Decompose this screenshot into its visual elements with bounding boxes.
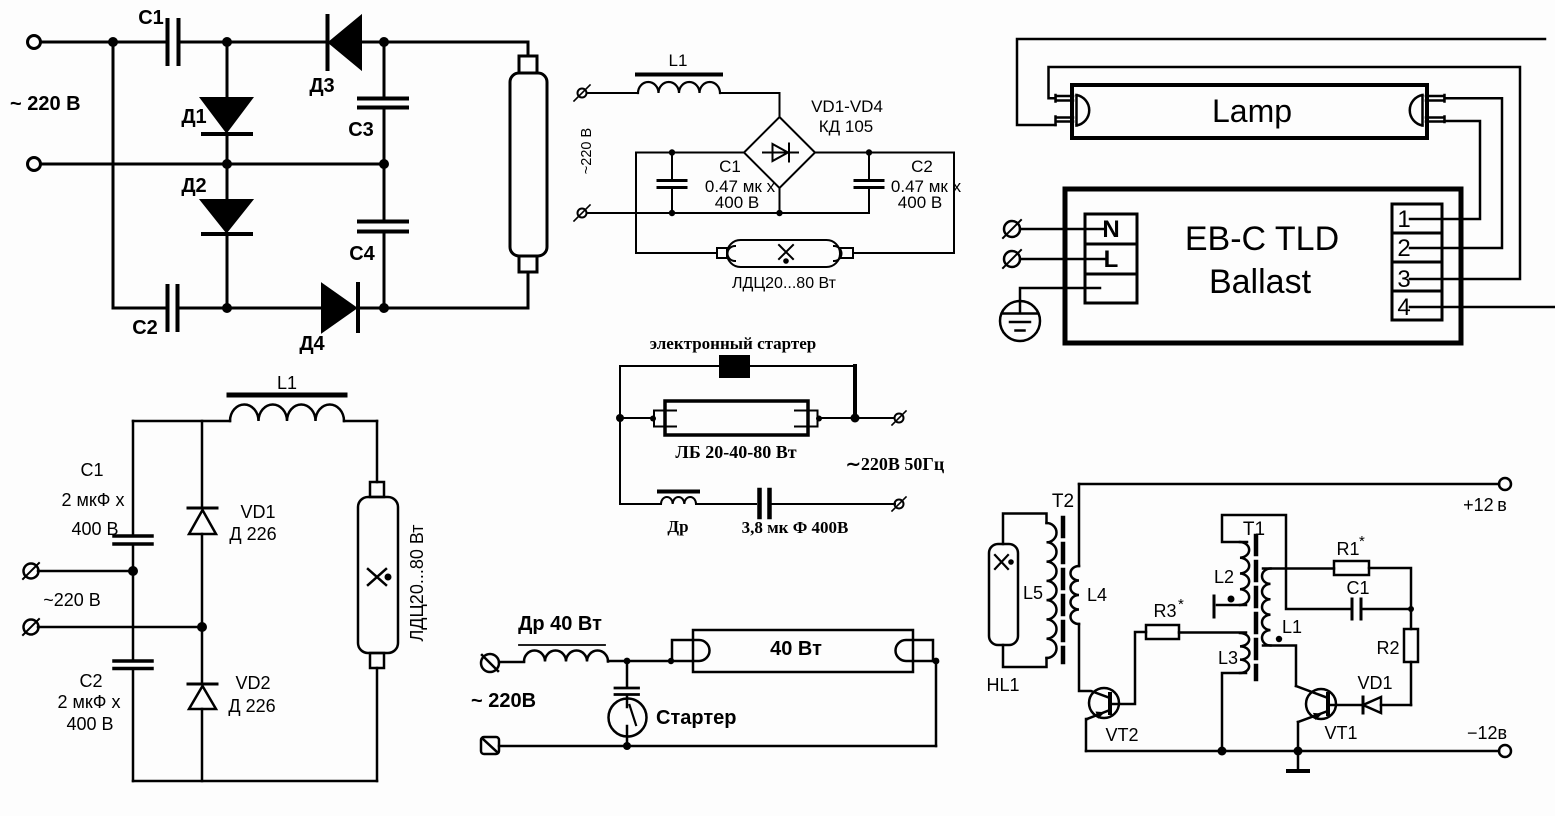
svg-text:C2: C2 [132, 317, 158, 339]
lamp ЛДЦ vertical [370, 482, 384, 497]
wire bottom rail [499, 745, 936, 748]
phase dot L1 [1276, 636, 1282, 642]
svg-text:VT1: VT1 [1324, 723, 1357, 743]
wire choke to lamp [608, 660, 672, 663]
lamp pin lower-right [1426, 117, 1445, 123]
wire top loop [620, 365, 855, 367]
svg-text:400 В: 400 В [71, 519, 118, 539]
node A [108, 37, 118, 47]
wire R2 leads [1410, 609, 1413, 705]
wire lamp branch top [376, 421, 379, 482]
node input 1 [128, 566, 138, 576]
wire lamp right to terminal [818, 417, 894, 419]
wire left down to lamp [636, 153, 717, 254]
winding L5 [1047, 523, 1057, 658]
svg-text:4: 4 [1397, 294, 1410, 321]
svg-text:R1: R1 [1336, 539, 1359, 559]
capacitor 3,8 мкФ [760, 490, 770, 517]
svg-text:VD2: VD2 [235, 673, 270, 693]
diode Д1 [201, 98, 252, 132]
svg-text:VD1: VD1 [1357, 673, 1392, 693]
lamp pin lower-left [1056, 117, 1074, 126]
capacitor C2 [168, 286, 178, 330]
inductor Др [661, 497, 696, 504]
terminal input 1 [28, 36, 41, 49]
core T2 [1061, 518, 1066, 662]
svg-text:Д3: Д3 [309, 75, 334, 97]
svg-text:T1: T1 [1243, 519, 1265, 540]
diode VD1 [1363, 697, 1381, 713]
wire lamp right down [933, 661, 936, 746]
svg-text:Др 40 Вт: Др 40 Вт [518, 613, 602, 635]
lamp pin right [795, 411, 818, 427]
svg-text:ЛДЦ20...80 Вт: ЛДЦ20...80 Вт [732, 275, 837, 292]
wire R2 to VD1 [1381, 704, 1411, 707]
wire bottom rail [588, 212, 869, 214]
node lamp right [933, 658, 940, 665]
wire right rail [815, 152, 954, 154]
node bottom mid [776, 210, 782, 216]
core T1 [1254, 536, 1259, 679]
phase dot L2 [1228, 596, 1235, 603]
electrode left [672, 640, 710, 661]
winding L3 [1240, 633, 1249, 673]
wire node E to C4 [383, 164, 386, 220]
svg-text:1: 1 [1397, 206, 1410, 233]
capacitor C1 [658, 181, 686, 188]
svg-text:~ 220 В: ~ 220 В [10, 93, 81, 115]
svg-text:N: N [1102, 216, 1119, 243]
svg-text:VT2: VT2 [1105, 725, 1138, 745]
wire to choke [499, 661, 524, 664]
node C1/R1/R2 [1408, 606, 1414, 612]
ballast box [1065, 189, 1461, 343]
node bottom [623, 742, 631, 750]
terminal input 2 [24, 620, 39, 635]
lamp ЛДЦ [727, 240, 840, 267]
wire lamp lower-left to top loop [1017, 39, 1545, 125]
lamp pin upper-left [1056, 95, 1074, 102]
svg-text:C4: C4 [349, 243, 375, 265]
svg-text:HL1: HL1 [986, 675, 1019, 695]
svg-text:ЛДЦ20...80 Вт: ЛДЦ20...80 Вт [407, 524, 427, 641]
node L3 bottom [1218, 747, 1227, 756]
wire L1 top to R1 [1263, 567, 1334, 570]
svg-text:L: L [1104, 246, 1119, 273]
wire C1 to bottom rail [671, 189, 673, 213]
svg-text:~220 В: ~220 В [579, 128, 595, 174]
capacitor C3 [359, 99, 407, 108]
wire to earth cell [1020, 288, 1100, 301]
terminal input 1 [24, 564, 39, 579]
svg-text:C3: C3 [348, 119, 374, 141]
resistor R3 [1146, 625, 1179, 639]
wire left vertical [619, 366, 621, 504]
svg-text:400 В: 400 В [715, 193, 759, 212]
wire input 2 [38, 626, 202, 629]
wire to bridge top [720, 93, 780, 117]
lamp tube [519, 56, 537, 73]
wire mid rail [41, 163, 384, 166]
svg-text:C2: C2 [79, 671, 102, 691]
wire left rail upper [132, 421, 135, 534]
svg-text:−12в: −12в [1467, 723, 1507, 743]
wire bottom rail [133, 780, 377, 783]
wire VT2 emitter to bottom rail [1086, 719, 1087, 751]
wire to L [1020, 258, 1105, 261]
wire right down to lamp [853, 153, 954, 254]
wire terminal 4 out [1410, 306, 1555, 309]
svg-text:40 Вт: 40 Вт [770, 638, 822, 660]
node right [851, 414, 860, 423]
svg-text:∼220В 50Гц: ∼220В 50Гц [846, 454, 945, 474]
wire bridge bottom [779, 188, 781, 213]
svg-text:Ballast: Ballast [1209, 263, 1312, 301]
wire C1 to node [1361, 608, 1411, 611]
terminal input 1 [481, 654, 499, 672]
wire L2 top hook to C1 [1222, 515, 1352, 609]
terminal input 2 [481, 737, 499, 754]
svg-text:Д2: Д2 [181, 175, 206, 197]
svg-text:2: 2 [1397, 235, 1410, 262]
wire lamp upper-left to terminal 3 [1049, 67, 1521, 279]
terminal input 2 [578, 209, 587, 218]
capacitor C1 [168, 20, 179, 64]
terminal mains phase 2 [1004, 251, 1020, 267]
svg-text:Д1: Д1 [181, 106, 206, 128]
capacitor C1 [114, 536, 152, 544]
winding L2 [1240, 542, 1249, 605]
svg-text:C1: C1 [138, 7, 164, 29]
svg-text:2 мкФ х: 2 мкФ х [58, 692, 121, 712]
node bottom left [669, 210, 675, 216]
lamp 40 Вт [693, 630, 913, 672]
terminal +12v [1499, 478, 1511, 490]
svg-text:Lamp: Lamp [1212, 93, 1292, 129]
wire node B to Д1 [226, 42, 229, 97]
inductor L1 [638, 82, 720, 93]
wire +12v rail [1079, 483, 1499, 486]
capacitor C2 [855, 181, 883, 188]
wire -12v rail [1086, 750, 1499, 753]
svg-text:L2: L2 [1214, 567, 1234, 587]
wire HL1 bottom to L5 [1003, 645, 1047, 667]
wire Д4 to lamp bottom [358, 307, 528, 310]
node G [379, 303, 389, 313]
wire R3 to L3 [1179, 631, 1246, 634]
wire node C to C3 [383, 42, 386, 97]
electronic starter block [719, 355, 750, 378]
wire node D to Д2 [226, 164, 229, 199]
svg-text:+12 в: +12 в [1463, 495, 1507, 515]
svg-text:Стартер: Стартер [656, 707, 736, 729]
wire node to C2 [868, 153, 870, 180]
svg-text:Д4: Д4 [299, 333, 325, 355]
terminal input 2 [28, 158, 41, 171]
wire lamp bottom pin [527, 272, 530, 308]
wire L4 top to rail [1078, 484, 1081, 566]
svg-text:~220 В: ~220 В [43, 590, 101, 610]
inductor L1 [230, 405, 344, 422]
node VT1 emitter [1294, 747, 1303, 756]
diode Д3 [329, 16, 361, 69]
terminal right 1 [895, 414, 904, 423]
wire lamp bottom [376, 668, 379, 781]
wire right vertical thick [853, 366, 857, 418]
svg-text:VD1: VD1 [240, 502, 275, 522]
wire VD1 to VT1 base [1330, 704, 1363, 707]
terminal -12v [1499, 745, 1511, 757]
wire node to lamp left pin [620, 417, 654, 419]
node F [222, 303, 232, 313]
svg-text:2 мкФ х: 2 мкФ х [62, 490, 125, 510]
earth symbol [1000, 301, 1040, 341]
wire VT1 emitter to bottom rail [1297, 722, 1300, 751]
lamp electrode left [1077, 95, 1090, 126]
wire L2 bottom stub [1217, 604, 1246, 607]
svg-text:Др: Др [667, 517, 688, 536]
lamp ЛБ body [665, 401, 808, 435]
svg-text:L1: L1 [277, 373, 297, 393]
lamp pin upper-right [1426, 95, 1445, 102]
wire node C to lamp top [384, 42, 528, 56]
wire input 1 [38, 570, 133, 573]
wire top rail left [41, 41, 166, 44]
inductor Др 40 Вт [524, 651, 608, 662]
svg-text:*: * [1178, 596, 1184, 613]
wire starter down [626, 726, 629, 746]
svg-text:EB-C TLD: EB-C TLD [1185, 220, 1339, 258]
terminal block 1-4 [1392, 204, 1442, 320]
transistor VT1 [1306, 689, 1336, 719]
node junction [624, 658, 631, 665]
wire C3 to mid rail [383, 109, 386, 164]
starter [609, 699, 647, 737]
svg-text:VD1-VD4: VD1-VD4 [811, 97, 883, 116]
svg-text:L1: L1 [669, 51, 688, 70]
terminal input 1 [578, 89, 587, 98]
svg-text:C1: C1 [80, 460, 103, 480]
wire to N [1020, 228, 1105, 231]
wire C4 to bottom rail [383, 233, 386, 308]
lamp body [1072, 85, 1427, 138]
wire L1 bottom to VT1 collector [1263, 646, 1296, 687]
svg-text:Д 226: Д 226 [229, 524, 276, 544]
wire R1 to node [1369, 568, 1411, 609]
node input 2 [197, 622, 207, 632]
node E [379, 159, 389, 169]
lamp pin left [654, 411, 676, 427]
wire C1 to node B [180, 41, 326, 44]
diode Д2 [201, 200, 252, 232]
node D [222, 159, 232, 169]
winding L4 [1071, 566, 1080, 624]
wire L4 bottom to VT2 collector [1079, 624, 1110, 698]
svg-text:R3: R3 [1153, 601, 1176, 621]
diode Д4 [322, 284, 356, 332]
wire Д3 to node C [361, 41, 384, 44]
svg-text:L1: L1 [1282, 617, 1302, 637]
wire HL1 top to L5 [1003, 514, 1047, 545]
svg-text:ЛБ 20-40-80 Вт: ЛБ 20-40-80 Вт [675, 442, 796, 462]
wire C2 to bottom rail [868, 189, 870, 213]
node B [222, 37, 232, 47]
terminal right 2 [895, 500, 904, 509]
node C [379, 37, 389, 47]
wire left rail mid [132, 546, 135, 659]
capacitor C2 [114, 661, 152, 669]
svg-text:400 В: 400 В [66, 714, 113, 734]
svg-text:400 В: 400 В [898, 193, 942, 212]
wire lamp lower-right to terminal 1 [1410, 121, 1480, 219]
transistor VT2 [1089, 688, 1119, 718]
svg-text:L4: L4 [1087, 585, 1107, 605]
wire VD1 to node input 2 [201, 534, 204, 684]
wire top rail left [636, 152, 744, 154]
wire bottom rail [113, 307, 166, 310]
capacitor C1 [1352, 599, 1361, 619]
svg-text:C1: C1 [719, 157, 741, 176]
svg-text:R2: R2 [1376, 638, 1399, 658]
wire L3 bottom down [1222, 673, 1246, 751]
svg-text:3,8 мк Ф 400В: 3,8 мк Ф 400В [742, 518, 849, 537]
lamp HL1 [989, 544, 1018, 645]
node left [616, 414, 624, 422]
node C2 top [866, 149, 872, 155]
svg-text:C2: C2 [911, 157, 933, 176]
terminal mains phase 1 [1004, 221, 1020, 237]
svg-text:C1: C1 [1346, 578, 1369, 598]
lamp electrode right [1410, 95, 1423, 126]
resistor R1 [1334, 561, 1369, 575]
wire left rail lower [132, 670, 135, 781]
winding L1 [1262, 569, 1271, 646]
svg-text:T2: T2 [1052, 491, 1074, 512]
svg-text:Д 226: Д 226 [228, 696, 275, 716]
wire VD2 down [201, 709, 204, 781]
ground [1297, 751, 1300, 770]
wire Д1 to mid rail [226, 135, 229, 164]
svg-text:3: 3 [1397, 266, 1410, 293]
diode VD1 [188, 507, 217, 510]
diode VD2 [188, 683, 217, 686]
terminal block N/L [1085, 214, 1137, 303]
wire [588, 92, 638, 94]
wire bottom rail [620, 503, 895, 505]
wire top rail [133, 420, 377, 423]
wire diode rail upper [201, 421, 204, 507]
node C1 top [669, 149, 675, 155]
wire C2 to node F [179, 307, 321, 310]
bridge rectifier VD1-VD4 [744, 117, 815, 188]
electrode right [896, 640, 934, 661]
resistor R2 [1404, 629, 1418, 662]
svg-text:L5: L5 [1023, 583, 1043, 603]
svg-text:~ 220В: ~ 220В [471, 690, 536, 712]
wire node to C1 [671, 153, 673, 180]
wire left vertical [112, 42, 115, 308]
capacitor C4 [359, 222, 407, 232]
svg-text:*: * [1359, 533, 1365, 550]
wire Д2 to bottom rail [226, 235, 229, 308]
wire lamp upper-right to terminal 2 [1410, 98, 1502, 248]
capacitor starter [626, 661, 629, 686]
svg-text:L3: L3 [1218, 648, 1238, 668]
svg-text:электронный стартер: электронный стартер [650, 334, 817, 353]
svg-text:КД 105: КД 105 [819, 117, 874, 136]
wire VT2 base to R3 [1112, 632, 1146, 704]
node lamp pin [668, 658, 674, 664]
